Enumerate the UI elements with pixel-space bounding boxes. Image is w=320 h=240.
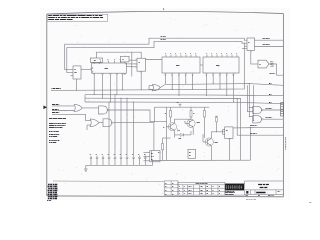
resistor pack RP1 xyxy=(270,61,273,67)
capacitor C7 xyxy=(126,155,129,166)
label BIT CLK H xyxy=(161,36,167,38)
capacitor C1 xyxy=(90,155,93,166)
title block zone grid xyxy=(164,181,178,195)
capacitor C5 xyxy=(114,155,117,166)
wire bus net D xyxy=(85,102,283,104)
capacitor C9 xyxy=(138,155,141,166)
wire bus net C xyxy=(85,97,240,99)
wire U7 outputs to bus xyxy=(206,74,234,102)
label DATA OUT xyxy=(270,73,276,75)
wire WRITE CLOCK L out xyxy=(255,46,284,48)
pin labels U7 xyxy=(206,54,237,76)
capacitor C2 xyxy=(96,155,99,166)
or-gate G3 7432 xyxy=(86,114,104,130)
wire U3 pin 117 to bus xyxy=(116,75,118,95)
revision table xyxy=(178,182,225,195)
wire U3 pin 122 to bus xyxy=(122,75,124,90)
nand-gate N1 7410 xyxy=(248,106,284,113)
wire net BIT CLK L xyxy=(67,41,247,72)
wire U9 output to edge xyxy=(269,64,283,75)
label DELAYED CLK xyxy=(250,125,257,127)
resistor R4 xyxy=(158,138,171,161)
drawing number xyxy=(256,192,265,194)
rev cell xyxy=(278,191,281,193)
wire ground rail one-shot xyxy=(151,127,251,161)
wire Q2 emitter to rail xyxy=(192,131,194,135)
flip-flop U8 7474 xyxy=(242,38,258,64)
label READ GATE xyxy=(52,110,74,111)
label WRITE CLOCK L xyxy=(263,44,271,46)
label READ CLOCK xyxy=(266,108,273,110)
wire riser x127 xyxy=(126,98,128,155)
wire U3 pin 94 to bus xyxy=(93,75,95,95)
or-gate G1 7432 xyxy=(74,104,99,111)
label READ CLOCK L xyxy=(266,117,273,119)
label ERASE GATE xyxy=(52,113,86,115)
zone tick top xyxy=(163,8,165,10)
wire U10 out to edge xyxy=(233,126,283,129)
wire U3 pin 102 to bus xyxy=(102,75,104,99)
label TEST PULSE IN xyxy=(52,88,61,90)
wire Q1 emitter down xyxy=(174,135,176,138)
capacitor C10 xyxy=(144,155,147,166)
nand-gate G2 7400 xyxy=(99,106,167,122)
flip-flop U1 7474 xyxy=(65,66,92,91)
power rail +5V xyxy=(154,103,209,123)
wire riser x121 xyxy=(120,98,122,155)
nand-gate N2 7410 xyxy=(249,116,283,123)
delay select SW1 xyxy=(144,151,161,162)
wire U3 pin 110 to bus xyxy=(109,75,111,102)
wire bus net A xyxy=(164,84,283,86)
pin labels U6 xyxy=(165,54,196,76)
company logo block xyxy=(225,181,245,195)
scale row xyxy=(245,194,284,195)
ground symbol xyxy=(84,165,88,171)
transistor Q1 2N3904 xyxy=(163,123,176,135)
label BIT CLK L xyxy=(161,39,167,41)
capacitor C6 xyxy=(120,155,123,166)
shift register U7 74164 xyxy=(203,55,239,75)
nand-gate G4 7400 xyxy=(103,119,154,151)
wire one-shot left riser xyxy=(166,107,168,160)
wire riser x133.5 xyxy=(133,102,135,156)
capacitor C3 xyxy=(102,155,105,166)
approval stamp xyxy=(47,185,58,201)
label WRITE GATE xyxy=(52,105,74,106)
wire U6 outputs to bus xyxy=(165,74,193,96)
pull-up resistor R5 xyxy=(215,116,218,132)
diode CR1 1N914 xyxy=(175,131,191,139)
test point TP1 xyxy=(188,149,196,158)
label net B xyxy=(269,94,271,96)
wire N1 N2 input risers xyxy=(240,83,254,160)
title text CLOCK AND GATE DELAY xyxy=(245,181,284,194)
input connector arrow xyxy=(43,106,47,110)
wire to U5 clock xyxy=(96,52,141,58)
edge connector J1 xyxy=(281,103,284,116)
resistor R3 xyxy=(204,107,206,138)
flip-flop U5 7474 xyxy=(125,53,162,91)
wire WRITE CLOCK out xyxy=(255,39,284,41)
label GATE DELAY xyxy=(250,133,257,135)
gate package U4 7404 xyxy=(121,56,130,63)
wire net E to edge xyxy=(237,99,283,136)
drawing border frame xyxy=(47,11,284,196)
capacitor C8 xyxy=(132,155,135,166)
photocopy footer xyxy=(246,200,311,203)
pin labels U3 xyxy=(100,59,121,61)
size letter D xyxy=(246,191,248,194)
capacitor C4 xyxy=(108,155,111,166)
transistor Q2 2N3904 xyxy=(184,119,199,131)
ground bus bottom xyxy=(86,161,153,166)
engineering note box xyxy=(47,14,107,21)
shift register U6 74164 xyxy=(162,55,203,75)
wire bus left riser xyxy=(84,95,86,102)
label net A xyxy=(269,83,271,85)
notes text block xyxy=(49,119,66,143)
one-shot U10 74121 xyxy=(223,127,233,160)
wire bus net B xyxy=(85,94,283,97)
or-gate G5 7432 xyxy=(149,84,164,91)
wire TEST PULSE IN net xyxy=(51,43,245,91)
label net D xyxy=(269,102,271,104)
margin drawing number vertical xyxy=(285,137,287,152)
line driver U9 75452 xyxy=(258,60,269,68)
counter U3 74193 xyxy=(92,61,132,75)
wire riser x115 xyxy=(114,95,116,156)
label WRITE CLOCK xyxy=(263,38,271,40)
transistor Q3 2N2222 xyxy=(202,132,222,161)
gate package U2 7400 xyxy=(90,58,102,64)
resistor R2 xyxy=(190,107,194,119)
resistor R1 xyxy=(165,107,172,122)
capacitor C11 xyxy=(178,129,180,132)
wire Q1-Q2 collector link xyxy=(175,119,191,123)
wire riser x109 xyxy=(108,102,110,156)
title block strip top line xyxy=(53,180,164,183)
wire net BIT CLK H xyxy=(65,38,247,69)
